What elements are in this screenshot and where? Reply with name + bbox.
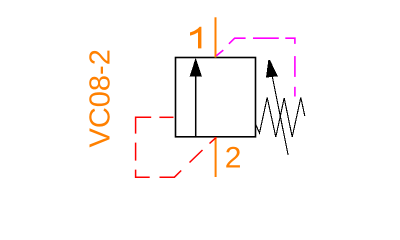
pilot line (magenta dashed) : diagonal dash 1 <box>216 50 223 56</box>
pilot line : diagonal dash 2 + corner into horizontal <box>229 38 246 44</box>
port 1 line <box>215 17 217 57</box>
port 2 line <box>215 137 217 177</box>
adjustment arrowhead <box>266 60 278 77</box>
vent line : diagonal dash 3 to port 2 junction <box>210 137 217 143</box>
pilot line : horizontal dash 3 + corner down <box>285 38 295 44</box>
svg-text:VC08-2: VC08-2 <box>85 49 117 147</box>
adjustment arrow shaft <box>272 77 288 156</box>
port 1 label <box>190 27 201 49</box>
vent line : top horizontal dash to box <box>159 116 173 118</box>
pilot line : vertical dash 2 <box>294 56 296 77</box>
flow path arrowhead <box>190 58 202 77</box>
pilot line : vertical dash 3 <box>294 87 296 97</box>
vent line : diagonal dash 2 <box>190 150 203 163</box>
svg-text:2: 2 <box>225 141 242 174</box>
spring <box>256 98 305 138</box>
vent line : bottom-left corner dash <box>136 170 150 178</box>
valve body box <box>176 58 256 137</box>
vent line : vertical dash <box>135 143 137 161</box>
vent line : bottom horizontal dash + turn up diagonal <box>160 171 182 178</box>
flow path arrow shaft (port 2 to port 1) <box>195 76 197 138</box>
pilot line : horizontal dash 2 <box>253 37 279 39</box>
vent line (red dashed) : top-left corner dash <box>136 117 152 133</box>
